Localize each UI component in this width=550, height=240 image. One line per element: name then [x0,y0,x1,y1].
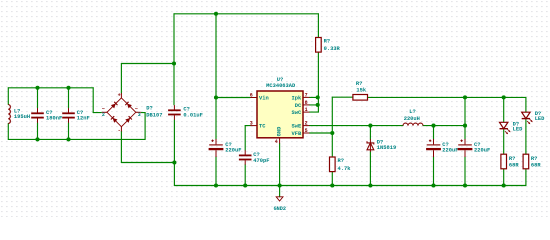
capacitor C3 0.01uF [168,105,203,120]
wire bridge plus to node [121,63,174,65]
wire pin7 [309,96,318,98]
wire to gnd rail corner [173,163,175,186]
LED D3 [500,121,524,134]
wire R2 to gnd [331,172,333,186]
wire vin vertical to C3 [173,64,175,105]
wire bridge minus to gnd node [121,162,174,164]
svg-text:68R: 68R [509,162,519,168]
resistor R5 68R [523,154,541,169]
wire pin2 SwE row [309,125,403,127]
wire output up [464,97,466,125]
wire C7 top [464,126,466,140]
resistor R3 15k body [353,95,368,101]
svg-text:6: 6 [250,92,253,98]
junction gnd D2 [368,183,372,187]
wire bridge plus up [120,64,122,94]
wire vin vertical upper [173,14,175,64]
junction bridge minus node [172,160,176,164]
resistor R1 0.33R [316,38,341,53]
svg-text:R?: R? [531,156,537,162]
capacitor C2 12nF [62,108,90,123]
junction gnd C6 [431,183,435,187]
wire IC gnd to rail [279,144,281,186]
wire pin8 [309,104,318,106]
wire L1 top lead [7,88,9,105]
svg-text:TC: TC [259,124,266,130]
wire C3 bottom [173,120,175,163]
svg-text:R?: R? [324,39,330,45]
junction gnd C4 [214,183,218,187]
wire LED1 to R4 [503,130,505,154]
wire R1 to pins [317,52,319,112]
junction bottom rail C2 [66,137,70,141]
svg-text:15k: 15k [356,88,366,94]
svg-text:3: 3 [138,112,141,118]
junction output rail LED1 [502,95,506,99]
svg-text:4: 4 [275,139,278,145]
resistor R3 15k [353,81,368,100]
svg-text:LED: LED [535,116,545,122]
ground GND2 [274,197,286,212]
wire vin drop x216 [215,14,217,98]
wire to LED2 [525,97,527,111]
capacitor C1 180nF [31,108,62,123]
wire C6 top [433,126,435,140]
wire R4 to gnd [503,169,505,186]
svg-text:L?: L? [409,109,415,115]
junction top rail C1 [35,86,39,90]
inductor L2 220uH [403,109,423,125]
svg-text:GND: GND [277,126,283,136]
op-amp converter IC U1 MC34063AD [250,77,310,145]
svg-text:220uF: 220uF [474,148,490,154]
capacitor C5 470pF [239,150,270,165]
bridge rectifier D1 DB107 [102,93,163,134]
wire Vin to IC pin6 [216,97,250,99]
wire to bridge ac1 [93,112,101,114]
wire input top rail [8,87,93,89]
junction output C7 [463,124,467,128]
svg-text:7: 7 [305,92,308,98]
svg-text:GND2: GND2 [274,206,286,212]
svg-text:+: + [118,93,121,99]
junction output rail C7 [463,95,467,99]
wire L1 bottom lead [7,124,9,140]
junction bottom rail C1 [35,137,39,141]
svg-text:VFB: VFB [291,131,301,137]
svg-text:195uH: 195uH [14,114,30,120]
diode D2 1N5819 [367,139,396,152]
svg-text:3: 3 [250,121,253,127]
junction top rail [214,12,218,16]
svg-text:D?: D? [146,106,152,112]
svg-text:SwC: SwC [291,110,301,116]
svg-text:Vin: Vin [259,95,269,101]
wire C1 top [37,88,39,108]
svg-text:2: 2 [102,112,105,118]
wire pin1 SwC [309,111,318,113]
wire gnd stub [279,186,281,197]
svg-text:R?: R? [509,156,515,162]
wire L2 to output corner [423,125,465,127]
wire TC [245,125,250,127]
wire LED2 to R5 [525,120,527,155]
svg-text:68R: 68R [531,162,541,168]
capacitor C6 220uF output [426,139,458,157]
junction gnd C7 [463,183,467,187]
wire top to R1 [317,14,319,38]
junction gnd IC [278,183,282,187]
wire C2 top [68,88,70,108]
wire top rail [174,13,318,15]
wire pin5 VFB [309,132,332,134]
wire C1 bottom [37,123,39,139]
svg-text:R?: R? [338,158,344,164]
wire gnd rail [174,185,526,187]
svg-text:LED: LED [513,127,523,133]
svg-text:DB107: DB107 [146,112,162,118]
junction pin7 [316,95,320,99]
wire to LED1 [503,97,505,122]
wire C4 top [215,98,217,140]
junction bridge plus node [172,61,176,65]
junction top rail C2 [66,86,70,90]
wire bridge ac2 [141,112,145,114]
junction gnd R2 [330,183,334,187]
svg-text:220uF: 220uF [442,148,458,154]
svg-text:C?: C? [253,152,259,158]
capacitor C7 220uF output [458,139,491,157]
wire C5 bottom [244,165,246,186]
svg-text:5: 5 [305,128,308,134]
wire input bottom rail [8,138,145,140]
junction gnd R4 [502,183,506,187]
svg-text:220uH: 220uH [404,116,420,122]
wire output rail [368,96,526,98]
wire C2 bottom [68,123,70,139]
svg-text:470pF: 470pF [253,158,269,164]
svg-text:1: 1 [305,107,308,113]
junction L2 out C6 [431,124,435,128]
wire D2 anode to gnd [369,152,371,186]
svg-text:220uF: 220uF [225,148,241,154]
wire to bridge ac1 vertical [92,88,94,113]
svg-text:4.7k: 4.7k [338,166,352,172]
LED D4 [522,111,545,124]
svg-text:MC34063AD: MC34063AD [266,83,296,89]
wire VFB to R2 [331,133,333,157]
capacitor C4 220uF input [209,139,242,157]
wire to R3 [332,96,353,98]
wire R5 to gnd [525,169,527,186]
resistor R4 68R [501,154,519,169]
wire bridge ac2 vertical [144,113,146,140]
junction pin8 [316,103,320,107]
svg-text:2: 2 [305,121,308,127]
svg-text:R?: R? [356,81,362,87]
svg-text:1N5819: 1N5819 [377,145,396,151]
wire to D2 cathode [369,126,371,140]
resistor R2 4.7k [330,157,352,172]
wire VFB up [331,97,333,133]
wire C6 bottom [433,157,435,186]
svg-text:DC: DC [295,103,302,109]
svg-text:12nF: 12nF [77,115,90,121]
svg-text:-: - [118,128,121,134]
svg-text:0.33R: 0.33R [324,46,341,52]
wire to C5 [244,126,246,151]
wire C4 bottom [215,157,217,186]
junction VFB node [330,131,334,135]
svg-text:8: 8 [305,100,308,106]
svg-text:SwE: SwE [291,124,301,130]
wire bridge minus down [120,131,122,162]
svg-text:0.01uF: 0.01uF [183,113,202,119]
svg-text:180nF: 180nF [46,115,62,121]
junction Vin node [214,95,218,99]
svg-text:Ipk: Ipk [291,95,301,101]
wire C7 bottom [464,157,466,186]
inductor L1 195uH [8,105,30,124]
junction SwE diode [368,124,372,128]
junction gnd C5 [243,183,247,187]
